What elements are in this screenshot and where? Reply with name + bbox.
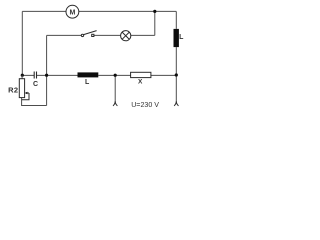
wire top horizontal xyxy=(22,10,176,12)
wire right vertical xyxy=(175,11,177,101)
svg-text:M: M xyxy=(69,9,75,16)
terminal right xyxy=(174,101,178,106)
capacitor C xyxy=(34,72,36,79)
wire left vertical xyxy=(21,11,23,75)
svg-text:R2: R2 xyxy=(8,86,18,95)
resistor R2 (rheostat) xyxy=(8,75,29,99)
wire terminal branch xyxy=(114,75,116,101)
node junction top xyxy=(153,10,156,13)
node junction mid-right xyxy=(114,74,117,77)
inductor L (horizontal) xyxy=(78,72,99,86)
resistor X xyxy=(131,72,151,85)
svg-text:L: L xyxy=(85,79,90,86)
node junction right xyxy=(175,73,178,76)
node junction center xyxy=(45,74,48,77)
node junction left xyxy=(21,74,24,77)
motor M1 xyxy=(66,5,79,18)
svg-text:X: X xyxy=(138,79,143,86)
terminal left xyxy=(113,101,117,106)
wire switch-lamp row xyxy=(47,11,155,35)
svg-text:L: L xyxy=(179,34,184,41)
wire vertical center xyxy=(46,35,48,105)
inductor L (vertical, right) xyxy=(174,29,185,47)
svg-text:U=230 V: U=230 V xyxy=(131,101,159,109)
switch S1 xyxy=(81,31,96,37)
svg-text:C: C xyxy=(33,81,38,88)
wire bottom left xyxy=(22,98,47,106)
lamp E1 xyxy=(121,31,131,41)
wire middle row xyxy=(22,74,176,76)
